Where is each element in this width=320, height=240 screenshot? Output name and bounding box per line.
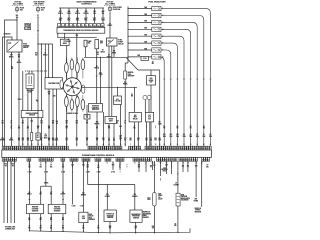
wire TFT out — [66, 46, 68, 147]
svg-text:57: 57 — [98, 226, 100, 228]
label injector 4 circuit — [189, 134, 192, 138]
svg-text:7: 7 — [162, 50, 163, 52]
wire TFI out 1 — [48, 89, 50, 146]
label injector 1 number — [162, 8, 163, 10]
wire spout continue — [37, 140, 39, 146]
wire TFI out 2 — [52, 89, 54, 146]
svg-text:DG/WH: DG/WH — [174, 184, 179, 186]
wire injector 8 return — [160, 57, 165, 146]
label injector 4 wire TAN — [144, 27, 147, 30]
wire clutch relay out 2 — [149, 122, 151, 146]
label tach signal — [18, 98, 22, 101]
label VSS plus top — [195, 166, 198, 170]
junction EVP ground — [83, 231, 84, 232]
label circuit BK at x159.7 — [159, 138, 162, 142]
fuse F1 30A label — [20, 8, 24, 12]
resistor on spout wire — [31, 133, 33, 141]
label connector row 120 — [120, 171, 121, 173]
underline hot at all times center — [104, 4, 116, 6]
svg-text:6: 6 — [162, 43, 163, 45]
svg-text:57: 57 — [175, 223, 177, 225]
fuel injector 1 — [152, 6, 161, 10]
junction injector 3 bus tap — [128, 22, 129, 23]
svg-text:C 101: C 101 — [143, 58, 147, 60]
junction EGR ground — [177, 232, 178, 233]
svg-text:916: 916 — [86, 138, 89, 140]
svg-text:?: ? — [31, 122, 32, 124]
label HO2S A signal a — [28, 164, 30, 169]
label circuit 347 at x130.5 — [129, 137, 132, 142]
label circuit upper 348 at x117.5 — [116, 120, 119, 125]
svg-text:MODULE: MODULE — [92, 109, 99, 111]
svg-text:CLU: CLU — [148, 117, 151, 119]
wire transmission drop 4 — [85, 8, 87, 24]
spark plug tower left side — [60, 80, 63, 89]
svg-text:201: 201 — [182, 166, 185, 168]
PCM top pin connector row — [2, 146, 211, 150]
ignition control module box — [89, 104, 103, 113]
svg-text:16: 16 — [68, 39, 70, 41]
svg-text:BK/YL: BK/YL — [9, 57, 14, 59]
svg-text:?: ? — [83, 166, 84, 168]
svg-text:1: 1 — [121, 159, 122, 161]
svg-text:GY: GY — [109, 228, 111, 230]
svg-text:RD: RD — [86, 122, 88, 124]
svg-text:SPEED: SPEED — [195, 210, 201, 212]
svg-text:IGNITION: IGNITION — [92, 105, 99, 107]
svg-text:BK: BK — [133, 128, 135, 130]
label below band 361 at x139 — [138, 165, 141, 169]
svg-text:351: 351 — [86, 165, 89, 167]
label injector 7 wire TAN — [144, 47, 147, 50]
label TFI out 2 — [53, 95, 56, 97]
label trans wire 2 — [67, 11, 72, 15]
label injector 5 wire TAN — [144, 34, 147, 37]
svg-text:28: 28 — [52, 144, 54, 146]
svg-text:6: 6 — [78, 25, 79, 27]
boxed label C1029 — [25, 27, 31, 30]
label circuit upper 480 at x66.7 — [66, 120, 69, 125]
PCM bottom pin connector row — [2, 157, 209, 161]
wire EGR ground — [177, 206, 179, 232]
underline hot at all times left — [12, 4, 24, 6]
svg-text:SS1: SS1 — [68, 18, 71, 20]
svg-text:259: 259 — [22, 138, 25, 140]
wire transmission drop 6 — [102, 8, 104, 24]
svg-text:787: 787 — [124, 82, 127, 84]
svg-text:WOT: WOT — [134, 117, 137, 119]
label connector row 113 — [111, 171, 115, 173]
svg-text:OXYGEN: OXYGEN — [32, 209, 39, 211]
wire purge solenoid out — [85, 47, 87, 58]
label below band 259 at x166.5 — [165, 165, 168, 169]
svg-text:CONTROL: CONTROL — [92, 107, 99, 109]
wire wot relay out 2 — [137, 122, 139, 146]
label circuit mid 324 at x38 — [37, 125, 40, 130]
wire injector 7 feed — [128, 49, 152, 51]
junction run feed at ICM 1 — [96, 57, 97, 58]
connector C101 ticks on injector returns — [163, 78, 211, 80]
svg-text:16: 16 — [102, 50, 104, 52]
wire MAP ground — [135, 222, 137, 233]
label circuit mid 16 at x27.9 — [27, 126, 29, 130]
label circuit 883 at x155.5 — [154, 138, 157, 142]
wire AC branch line — [81, 86, 137, 88]
junction MAP ground — [135, 232, 136, 233]
svg-text:19: 19 — [99, 159, 101, 161]
heated oxygen sensor box left — [27, 204, 44, 213]
svg-text:RD: RD — [108, 128, 110, 130]
svg-text:577: 577 — [10, 138, 13, 140]
svg-text:929: 929 — [48, 138, 51, 140]
svg-text:?: ? — [127, 166, 128, 168]
svg-text:58: 58 — [124, 144, 126, 146]
wire drop to AC wot relay — [134, 87, 136, 112]
svg-text:SEN: SEN — [82, 218, 85, 220]
label EVP side text — [89, 214, 95, 221]
wire noise cap branch — [138, 69, 160, 71]
svg-text:?: ? — [146, 128, 147, 130]
wire drop to cycling switch — [117, 87, 119, 96]
svg-text:DB: DB — [76, 140, 78, 142]
svg-text:977: 977 — [59, 11, 62, 13]
label MAP side text — [143, 211, 151, 219]
svg-text:199: 199 — [56, 121, 59, 123]
label circuit mid 480 at x66.7 — [66, 125, 69, 130]
label below band ? at x127 — [127, 165, 128, 169]
svg-text:929: 929 — [96, 138, 99, 140]
label circuit upper 361 at x41.6 — [40, 121, 43, 125]
wire fuse F3 to relay K2 — [109, 12, 111, 38]
label SPARK PLUGS — [67, 112, 78, 115]
connector tick HO2S B — [62, 198, 64, 200]
label spout signal — [36, 100, 39, 104]
label circuit 929 at x49 — [48, 138, 51, 142]
label ignition feed C1029 — [24, 23, 32, 27]
svg-text:9: 9 — [90, 25, 91, 27]
svg-text:97: 97 — [108, 55, 110, 57]
wire clutch relay out 1 — [146, 122, 148, 146]
fuel injector 7 — [152, 48, 161, 52]
label cycling out — [119, 134, 122, 139]
svg-text:C 100: C 100 — [111, 171, 115, 173]
wire transmission drop 1 — [60, 8, 62, 24]
label circuit 915 at x76.8 — [76, 138, 79, 142]
label circuit 37 at x41.6 — [41, 138, 43, 142]
fuel injector 5 — [152, 34, 161, 38]
svg-text:57: 57 — [2, 121, 4, 123]
label circuit mid 361 at x109 — [108, 126, 111, 130]
svg-text:BK: BK — [11, 68, 13, 70]
wire fuse F2 down — [37, 18, 39, 30]
svg-text:13: 13 — [27, 144, 29, 146]
label circuit 929 at x97 — [96, 138, 99, 142]
label AC relay feed — [131, 94, 134, 98]
svg-text:97: 97 — [18, 126, 20, 128]
svg-text:237: 237 — [76, 11, 79, 13]
label EVP C100 — [80, 206, 84, 208]
label circuit 923 at x66.7 — [66, 138, 69, 142]
connector ticks ICM feeds — [96, 75, 102, 77]
label connector row 63 — [61, 171, 65, 173]
wire DG4 out — [86, 119, 88, 146]
wire battery feed left edge — [3, 37, 12, 146]
svg-text:RD: RD — [41, 122, 43, 124]
wire wot relay out 1 — [134, 122, 136, 146]
wire TP ground — [109, 222, 111, 233]
svg-text:11: 11 — [150, 159, 152, 161]
wire stub below band B — [145, 161, 147, 172]
boxed label SPOUT — [36, 133, 40, 140]
svg-text:15: 15 — [150, 144, 152, 146]
label spare stub a — [71, 165, 74, 169]
wire stub right 0 — [151, 161, 153, 170]
svg-text:99: 99 — [183, 134, 185, 136]
svg-text:?: ? — [120, 128, 121, 130]
junction branch A — [41, 43, 42, 44]
svg-text:C 1029: C 1029 — [25, 28, 30, 30]
svg-text:96: 96 — [177, 126, 179, 128]
svg-text:199: 199 — [76, 35, 79, 37]
label injector 6 wire TAN — [144, 40, 147, 43]
label injector 1 wire TAN — [144, 6, 147, 9]
wire coil out 1 — [27, 89, 29, 147]
svg-text:SOL: SOL — [67, 20, 70, 22]
svg-text:1: 1 — [59, 25, 60, 27]
svg-text:577: 577 — [10, 55, 13, 57]
svg-text:57: 57 — [131, 94, 133, 96]
wire stub below band C — [166, 161, 168, 174]
svg-text:USED: USED — [158, 195, 162, 197]
svg-text:OG/YL: OG/YL — [75, 13, 80, 15]
svg-text:8: 8 — [123, 159, 124, 161]
svg-text:101: 101 — [170, 134, 173, 136]
label ICM feed 1 — [94, 66, 99, 70]
junction injector 6 bus tap — [128, 43, 129, 44]
label ICM feed 2 — [99, 72, 103, 76]
svg-text:RD: RD — [35, 54, 37, 56]
svg-text:2: 2 — [63, 25, 64, 27]
label EVP ground — [82, 226, 85, 230]
label injector 5 circuit — [183, 134, 186, 138]
wire injector 2 return — [161, 16, 204, 147]
label injector 6 circuit — [176, 134, 179, 138]
label stub right 1 — [160, 178, 161, 182]
wire stub right 1 — [159, 161, 161, 176]
spark plug towers top — [65, 58, 85, 79]
label below band 37 at x120 — [119, 165, 121, 169]
svg-text:97: 97 — [108, 138, 110, 140]
wire injector 5 feed — [128, 35, 152, 37]
label ACT name — [147, 196, 150, 201]
svg-text:2: 2 — [63, 159, 64, 161]
svg-text:361: 361 — [18, 55, 21, 57]
label 97 DB/YL feed — [108, 23, 113, 27]
fuse F3 fuel pump 20A — [109, 6, 112, 13]
svg-text:96: 96 — [203, 134, 205, 136]
wire transmission drop 2 — [68, 8, 70, 24]
label spare stub b — [72, 206, 76, 208]
svg-text:97: 97 — [190, 126, 192, 128]
wire spare stub — [72, 161, 74, 205]
label MAP feed — [132, 194, 137, 198]
label trans wire 3 row2 — [76, 18, 79, 22]
label case ground a — [97, 165, 100, 169]
label injector 2 wire TAN — [144, 13, 147, 16]
wire transmission drop 5 — [94, 8, 96, 24]
label TFI out 3 — [56, 121, 59, 125]
svg-text:CCS: CCS — [59, 18, 62, 20]
wire VREF branch feed — [87, 161, 89, 185]
wire relay K2 out 1 — [108, 46, 110, 117]
svg-text:7: 7 — [82, 25, 83, 27]
svg-text:C100: C100 — [99, 74, 103, 76]
ignition control relay module box — [21, 111, 43, 118]
label TP feed — [105, 194, 110, 198]
svg-text:787: 787 — [124, 138, 127, 140]
label circuit 97 at x109 — [108, 138, 110, 142]
svg-text:SENS: SENS — [63, 43, 67, 45]
powertrain control module band — [2, 150, 212, 157]
svg-text:3: 3 — [162, 22, 163, 24]
label HO2S A ground — [40, 192, 43, 196]
label MAP ground — [134, 226, 137, 230]
wire inertia switch out — [124, 79, 126, 146]
label circuit 259 at x22.8 — [22, 138, 25, 142]
box AC wot relay — [129, 112, 141, 122]
svg-text:21: 21 — [175, 159, 177, 161]
wire injector 7 return — [161, 50, 171, 146]
svg-text:102: 102 — [163, 134, 166, 136]
label circuit mid 95 at x164.2 — [163, 126, 165, 130]
wire ICM feed 2 — [100, 57, 102, 103]
svg-text:1: 1 — [162, 8, 163, 10]
label circuit 348 at x120.6 — [119, 137, 122, 142]
label EVP feed a — [82, 165, 85, 169]
box TFT sensor — [60, 39, 69, 45]
svg-text:315: 315 — [85, 11, 88, 13]
canister purge solenoid box — [84, 40, 87, 47]
svg-text:PK/YL: PK/YL — [58, 13, 63, 15]
svg-text:355: 355 — [106, 194, 109, 196]
svg-text:48: 48 — [51, 158, 53, 161]
svg-text:57: 57 — [40, 192, 42, 194]
label circuit upper 324 at x31.7 — [31, 120, 34, 125]
label stub right 3 — [187, 166, 190, 170]
label HO2S lower b x29.4 — [28, 226, 31, 230]
underline hot in run — [33, 4, 45, 6]
svg-text:SS2: SS2 — [76, 18, 79, 20]
junction injector 8 bus tap — [128, 56, 129, 57]
label 361 RD out2 — [18, 55, 21, 59]
fuel injector 3 — [152, 20, 161, 24]
svg-text:27: 27 — [40, 163, 42, 165]
label EGR side text — [181, 195, 190, 202]
label VREF feed — [86, 165, 89, 169]
wire transmission drop 3 — [77, 8, 79, 24]
svg-text:359: 359 — [152, 226, 155, 228]
label connector row 72.5 — [72, 171, 73, 173]
svg-text:57: 57 — [62, 226, 64, 228]
ignition coil — [26, 74, 34, 89]
label circuit mid 97 at x190.6 — [190, 126, 192, 130]
svg-text:RD: RD — [27, 128, 29, 130]
svg-text:57: 57 — [50, 217, 52, 219]
wire HO2S lower x63 — [62, 214, 64, 232]
svg-text:202: 202 — [187, 166, 190, 168]
junction TP ground — [109, 232, 110, 233]
svg-text:DB: DB — [18, 128, 20, 130]
svg-text:GY: GY — [37, 128, 39, 130]
label HO2S ground top — [44, 182, 49, 184]
svg-text:16 RD/LG: 16 RD/LG — [24, 23, 32, 25]
label injector 3 circuit — [196, 134, 199, 138]
label VEHICLE SPEED SENSOR — [195, 208, 202, 214]
svg-text:883: 883 — [154, 138, 157, 140]
svg-text:96: 96 — [62, 165, 64, 167]
svg-text:RD: RD — [97, 54, 99, 56]
label 57 BK mid — [11, 66, 13, 70]
svg-text:10: 10 — [94, 25, 96, 27]
wire VREF branch — [88, 184, 135, 186]
label injector 4 number — [162, 28, 163, 31]
svg-text:RLY: RLY — [148, 118, 151, 120]
distributor TFI module box — [45, 78, 63, 89]
label trans wire 1 — [58, 11, 63, 15]
junction EGR feed — [177, 173, 178, 174]
label data link a — [5, 163, 8, 168]
label shield note — [44, 134, 48, 139]
label circuit upper 37 at x11.4 — [10, 121, 12, 125]
wire branch drop TFI 3 — [52, 44, 54, 78]
label HO2S lower a x29.4 — [28, 217, 31, 221]
label circuit 57 at x151 — [150, 138, 153, 142]
wire branch to TP sensor — [106, 185, 108, 211]
label trans wire 3 — [75, 11, 80, 15]
throttle position sensor box — [104, 210, 116, 222]
wire relay K2 out 3 — [111, 46, 113, 117]
wire stub right 3 — [187, 161, 189, 172]
label ACT a — [153, 165, 156, 169]
label circuit 57 at x114 — [113, 138, 116, 142]
svg-text:?: ? — [160, 178, 161, 180]
wire branch drop TFI 1 — [44, 44, 46, 78]
heated oxygen sensor box right — [48, 204, 66, 213]
box AC cycling switch — [114, 96, 122, 105]
wire HO2S B signal — [62, 161, 64, 204]
label 16 RD/LG branch — [43, 53, 47, 57]
wire branch long drop — [159, 70, 161, 146]
wire branch to ignition feed — [38, 43, 53, 45]
label trans wire 4 row2 — [84, 18, 88, 22]
svg-text:BR: BR — [129, 140, 131, 142]
label HO2S B signal b — [61, 192, 67, 196]
AC clutch coil circles — [143, 95, 151, 99]
wire ICM feed 1 — [96, 57, 98, 103]
label circuit upper 57 at x2.6 — [2, 121, 5, 125]
svg-text:915: 915 — [76, 138, 79, 140]
label FUEL INJECTORS — [148, 2, 166, 4]
label EGR feed — [174, 182, 179, 187]
svg-text:102: 102 — [93, 11, 96, 13]
label circuit 321 at x146.5 — [145, 138, 148, 142]
svg-text:COIL: COIL — [28, 92, 32, 94]
label HOT AT ALL TIMES (left) — [13, 1, 23, 6]
svg-text:YL: YL — [41, 140, 43, 142]
label ICM out — [95, 122, 101, 126]
svg-text:PK/OG: PK/OG — [83, 13, 89, 15]
svg-text:GY: GY — [135, 228, 137, 230]
